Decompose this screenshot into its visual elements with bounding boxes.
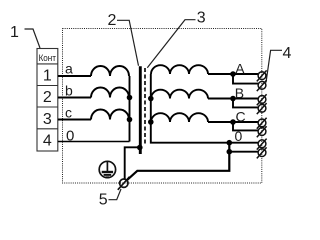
svg-text:3: 3 <box>197 10 206 27</box>
bushing C1 <box>257 118 267 129</box>
junction primary b <box>127 95 133 101</box>
branch 0 lower <box>229 151 258 153</box>
secondary winding B <box>151 90 208 99</box>
bushing A1 <box>257 70 267 81</box>
junction B <box>230 96 236 102</box>
leader 2 <box>117 20 139 66</box>
branch B lower <box>233 99 258 108</box>
wire c <box>58 119 91 121</box>
leader 5 <box>109 189 122 200</box>
terminal box Конт <box>37 49 58 152</box>
wire A <box>208 73 258 75</box>
bushing 5 <box>118 177 130 190</box>
leader 4 <box>266 50 282 82</box>
svg-text:b: b <box>65 82 73 98</box>
junction 02 <box>227 149 233 155</box>
junction core ground <box>137 145 143 151</box>
svg-text:1: 1 <box>43 68 52 85</box>
wire a <box>58 75 91 77</box>
screen dashed <box>144 68 146 146</box>
bushing B1 <box>257 94 267 105</box>
svg-text:0: 0 <box>66 127 74 144</box>
junction 01 <box>227 140 233 146</box>
svg-text:5: 5 <box>99 191 108 208</box>
junction primary c <box>127 117 133 123</box>
branch C lower <box>233 122 258 130</box>
junction secondary B <box>148 96 154 102</box>
enclosure dashed border <box>63 29 262 184</box>
svg-text:3: 3 <box>43 111 52 128</box>
ground symbol <box>99 161 115 177</box>
svg-text:c: c <box>65 104 72 120</box>
svg-text:A: A <box>235 61 245 77</box>
branch A lower <box>233 74 258 84</box>
secondary winding C <box>151 113 208 122</box>
secondary winding A <box>151 65 208 74</box>
junction secondary C <box>148 119 154 125</box>
svg-text:2: 2 <box>108 12 117 29</box>
svg-text:B: B <box>235 85 244 101</box>
svg-text:1: 1 <box>10 24 19 41</box>
svg-text:0: 0 <box>235 128 243 144</box>
core bar <box>139 66 142 154</box>
wire 0 primary <box>58 141 130 143</box>
primary star bus <box>129 76 131 142</box>
secondary star bus <box>151 74 230 143</box>
primary winding c <box>91 110 129 120</box>
junction C <box>230 119 236 125</box>
svg-text:a: a <box>65 61 73 77</box>
bushing A2 <box>257 80 267 91</box>
svg-text:4: 4 <box>43 133 52 150</box>
bushing 01 <box>257 139 267 150</box>
svg-text:C: C <box>236 108 246 124</box>
leader 1 <box>25 29 41 48</box>
bushing B2 <box>257 103 267 114</box>
junction A <box>230 71 236 77</box>
svg-text:2: 2 <box>43 89 52 106</box>
primary winding a <box>91 66 129 76</box>
leader 3 <box>147 20 195 68</box>
svg-text:Конт: Конт <box>39 52 57 63</box>
wire 0 secondary <box>229 142 258 144</box>
neutral bottom wire <box>127 143 229 180</box>
primary winding b <box>91 88 129 98</box>
wire b <box>58 97 91 99</box>
wire C <box>208 121 258 123</box>
wire B <box>208 98 258 100</box>
svg-text:4: 4 <box>283 45 292 62</box>
bushing 02 <box>257 147 267 158</box>
wire core to bushing 5 <box>125 147 140 179</box>
bushing C2 <box>257 126 267 137</box>
